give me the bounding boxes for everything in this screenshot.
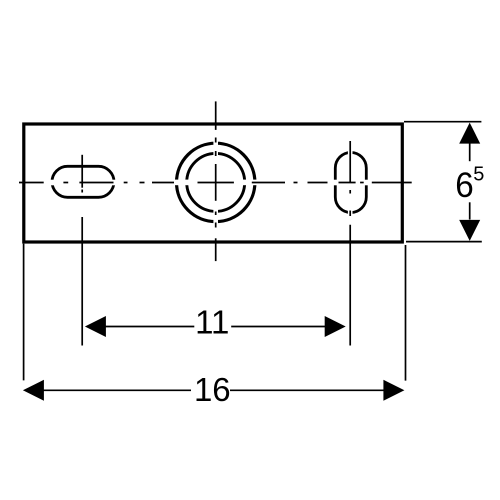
extension line from S2 center down to dim 11 [349, 225, 351, 346]
vertical centerline of slot S1 x=82.2 [81, 155, 83, 193]
slot S2 top arc gap [348, 150, 353, 156]
svg-text:16: 16 [194, 371, 231, 408]
dimension 11: line y=326.5 [104, 326, 326, 328]
dimension 16: line y=390.3 [43, 389, 384, 391]
dimension 6.5: vertical line x=469.7 [469, 144, 471, 220]
arrow right of dim 16 [383, 380, 404, 401]
dimension 6.5: extension lines [404, 122, 482, 242]
slot hole S1 (left horizontal obround) [52, 166, 114, 197]
slot S2 right edge gap [364, 180, 370, 186]
horizontal centerline y=182.5 [19, 182, 412, 184]
arrow left of dim 16 [23, 380, 44, 401]
slot S1 right arc gap [111, 180, 117, 186]
extension line from S1 center down to dim 11 [81, 217, 83, 346]
svg-text:6: 6 [455, 166, 474, 205]
circle outer gaps [173, 180, 179, 186]
arrow left of dim 11 [85, 316, 106, 337]
slot S2 left edge gap [333, 180, 339, 186]
plate outline [24, 124, 403, 242]
slot S2 bottom arc gap [348, 210, 353, 216]
svg-text:5: 5 [473, 164, 484, 186]
vertical centerline of slot S2 x=350.2 [349, 141, 351, 216]
slot S1 left arc gap [49, 180, 55, 186]
vertical centerline of circle U1 x=215.7 [215, 101, 217, 261]
arrow down of dim 6.5 [459, 220, 480, 241]
arrow right of dim 11 [325, 316, 346, 337]
circle inner gaps [184, 180, 190, 186]
hole U1 outer circle [177, 143, 255, 221]
slot hole S2 (right vertical obround) [335, 153, 366, 213]
dimension 16: extension lines [24, 244, 406, 381]
arrow up of dim 6.5 [459, 123, 480, 144]
white gap masks on hole outlines at centerline crossings [49, 140, 371, 224]
hole U1 inner circle [187, 153, 245, 211]
svg-text:11: 11 [195, 304, 229, 341]
